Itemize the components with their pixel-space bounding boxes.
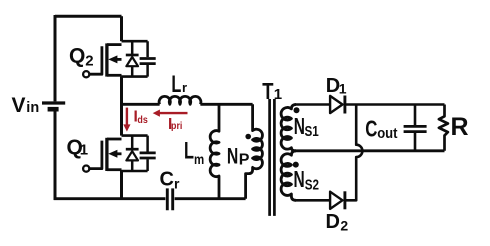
label Q2 <box>69 44 94 69</box>
polarity dot NS1 <box>294 107 300 113</box>
label D1 <box>326 75 347 97</box>
wire secondary top rail right <box>345 103 445 106</box>
current arrow Ids <box>126 108 128 126</box>
transformer T1 core <box>270 99 275 216</box>
svg-text:r: r <box>174 175 180 191</box>
wire D2 riser with hop over center tap <box>345 105 363 201</box>
inductor Lm <box>210 104 219 198</box>
label Ids <box>134 108 149 126</box>
transistor Q1 MOSFET <box>83 138 121 172</box>
transformer T1 secondary winding NS1 <box>281 105 296 151</box>
label NS1 <box>294 114 319 140</box>
source Vin positive plate <box>42 101 65 104</box>
svg-text:out: out <box>377 125 398 141</box>
label D2 <box>326 211 349 234</box>
label T1 <box>262 79 282 104</box>
label Cout <box>365 117 398 142</box>
label Lm <box>184 138 204 168</box>
label Ipri <box>168 116 183 133</box>
diode D2 <box>330 191 345 209</box>
svg-text:P: P <box>239 151 250 168</box>
wire Q1 cell bottom <box>122 170 148 173</box>
svg-text:L: L <box>171 71 181 98</box>
wire secondary bottom rail <box>295 199 331 202</box>
label Q1 <box>67 136 89 159</box>
svg-text:1: 1 <box>339 81 347 97</box>
current arrow Ipri <box>160 112 188 114</box>
label Vin <box>12 94 40 117</box>
diode D1 <box>330 96 345 114</box>
wire top rail <box>55 15 122 18</box>
svg-text:1: 1 <box>274 86 282 103</box>
svg-text:L: L <box>184 138 194 165</box>
svg-text:N: N <box>294 167 305 193</box>
svg-text:S2: S2 <box>305 176 319 193</box>
polarity dot Np <box>245 134 251 140</box>
svg-text:V: V <box>12 94 26 117</box>
svg-text:2: 2 <box>85 52 93 69</box>
capacitor Cout <box>404 105 427 151</box>
svg-text:D: D <box>326 211 340 233</box>
svg-text:N: N <box>227 144 238 169</box>
label Np <box>227 144 250 169</box>
wire Q2 cell top <box>122 40 148 43</box>
svg-text:ds: ds <box>137 114 148 126</box>
svg-text:Q: Q <box>69 44 85 67</box>
svg-text:C: C <box>365 117 377 142</box>
svg-text:1: 1 <box>80 142 88 159</box>
resistor R <box>439 105 448 151</box>
transistor Q2 MOSFET <box>83 43 121 77</box>
wire Q1 source to bottom rail <box>120 171 123 199</box>
inductor Lr <box>159 96 201 104</box>
transformer T1 secondary winding NS2 <box>281 151 296 201</box>
wire half-bridge leg upper <box>120 16 123 41</box>
label R <box>451 113 469 141</box>
label Lr <box>171 71 187 98</box>
label NS2 <box>294 167 319 193</box>
wire half-bridge midpoint leg <box>120 77 123 136</box>
svg-text:r: r <box>182 80 187 95</box>
svg-text:N: N <box>294 114 305 140</box>
svg-text:S1: S1 <box>305 123 320 140</box>
wire secondary top rail left <box>295 103 331 106</box>
wire center tap rail <box>291 149 444 152</box>
transformer T1 primary winding Np <box>246 104 263 198</box>
body diode of Q1 <box>126 136 139 171</box>
svg-text:m: m <box>194 152 204 167</box>
body diode of Q2 <box>126 41 139 76</box>
wire Q2 cell bottom <box>122 75 148 78</box>
wire bottom rail right of Cr <box>175 197 246 200</box>
svg-text:in: in <box>26 100 39 116</box>
capacitor Cr <box>167 188 172 210</box>
svg-text:T: T <box>262 79 273 104</box>
svg-text:R: R <box>451 113 469 141</box>
wire Q1 cell top <box>122 134 148 137</box>
capacitor of Q2 <box>140 41 156 76</box>
svg-text:pri: pri <box>171 120 183 132</box>
wire left rail lower <box>54 111 57 200</box>
svg-text:2: 2 <box>340 218 348 234</box>
source Vin negative plate <box>48 107 59 112</box>
capacitor of Q1 <box>140 136 156 171</box>
label Cr <box>160 168 181 191</box>
wire rail Lr to Np <box>200 103 252 106</box>
wire bottom rail left of Cr <box>54 197 166 200</box>
svg-text:C: C <box>160 168 174 190</box>
wire left rail upper <box>54 15 57 101</box>
polarity dot NS2 <box>293 162 299 168</box>
wire midpoint rail <box>122 103 160 106</box>
